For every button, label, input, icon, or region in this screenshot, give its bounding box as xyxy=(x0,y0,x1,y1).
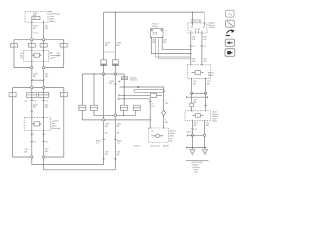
svg-text:Clutch: Clutch xyxy=(50,57,57,60)
junction ground bus R xyxy=(204,147,205,148)
tick on x150 xyxy=(149,100,152,102)
M1 tick low xyxy=(102,139,105,141)
M2 label xyxy=(117,43,122,48)
svg-text:OG: OG xyxy=(192,39,196,41)
ground label bracket xyxy=(186,159,209,161)
connector C1d on L2 xyxy=(40,44,47,48)
junction relay bottom right xyxy=(162,37,163,38)
wire label row2 L2 xyxy=(45,74,49,79)
svg-text:PU: PU xyxy=(152,106,155,108)
junction relay bottom left xyxy=(151,37,152,38)
splice SR4 xyxy=(203,134,205,136)
starter motor symbol xyxy=(151,130,163,137)
splice S5 xyxy=(31,86,33,88)
connector C2a xyxy=(9,93,16,97)
fuse F1 xyxy=(32,17,40,20)
junction E xyxy=(123,98,124,99)
R2 inner symbol xyxy=(192,71,204,75)
wires to R3 xyxy=(191,93,193,111)
fuse block label xyxy=(49,12,61,23)
chevron L2 low xyxy=(43,133,45,134)
M1 low label2 xyxy=(105,152,109,157)
splice S6 xyxy=(42,86,44,88)
relay K1 xyxy=(151,29,164,38)
tick right 2 xyxy=(201,46,208,48)
junction C xyxy=(123,95,124,96)
tick right 1 xyxy=(189,46,196,48)
svg-text:RD: RD xyxy=(163,42,167,44)
tick right wire xyxy=(204,105,207,107)
svg-text:(Maxi): (Maxi) xyxy=(50,21,56,23)
label right of wire R xyxy=(213,111,220,123)
svg-text:B203 f: B203 f xyxy=(163,145,169,147)
svg-text:Harness: Harness xyxy=(130,79,138,82)
tie row right xyxy=(187,96,208,98)
wire label mid xyxy=(109,81,114,85)
wire M2 lower xyxy=(114,74,116,170)
connector C3d xyxy=(133,105,140,110)
wire M1 vertical xyxy=(103,12,105,74)
splice S9 xyxy=(102,73,104,75)
dashed box starter xyxy=(149,128,169,143)
wire M2 vertical xyxy=(114,12,116,74)
R2 label right xyxy=(208,72,215,78)
wire L1 (left main vertical) xyxy=(31,23,33,158)
M2 tick low xyxy=(114,139,117,141)
branch x94 xyxy=(93,74,95,105)
note line xyxy=(33,32,39,34)
fuse pin stubs xyxy=(32,20,44,23)
connector C2d on L2 xyxy=(39,92,49,97)
svg-text:RD: RD xyxy=(117,45,121,47)
dashed box R1 xyxy=(188,23,207,33)
M1 label xyxy=(105,43,110,48)
splice S4 xyxy=(42,66,44,68)
right bus corner drop xyxy=(203,12,205,23)
pin dots box2 xyxy=(31,117,32,118)
svg-text:RD: RD xyxy=(45,28,49,30)
mid splice row horizontal xyxy=(82,73,124,75)
junction C3c on bus1 xyxy=(123,115,124,116)
starter feed line A xyxy=(120,87,164,111)
connector C1b xyxy=(60,44,67,48)
fuse block dashed box (Underhood Fuse Block) xyxy=(25,12,48,23)
label A wire2 xyxy=(165,120,168,125)
wire from C3c down xyxy=(123,110,125,115)
R1 extra pins xyxy=(196,31,199,33)
splice S7 xyxy=(31,156,33,158)
wire M1 lower xyxy=(103,74,105,165)
icon back xyxy=(225,39,234,46)
relay K1 label wires xyxy=(152,40,156,45)
svg-text:Motor: Motor xyxy=(208,74,214,77)
starter label xyxy=(170,130,177,143)
R1 pin numbers xyxy=(191,27,206,29)
connector D inline xyxy=(150,94,156,98)
svg-text:RD: RD xyxy=(45,107,49,109)
wire label 2240 RD (L1) xyxy=(33,26,38,31)
ground bus xyxy=(186,147,206,149)
junction A xyxy=(123,86,124,87)
C2 tick label L1 xyxy=(25,101,38,103)
svg-text:Assembly: Assembly xyxy=(52,127,62,130)
wire label row3 L2 xyxy=(45,104,49,108)
fusible link diamond xyxy=(162,110,166,115)
svg-text:OG: OG xyxy=(203,39,207,41)
splice S3 xyxy=(31,66,33,68)
icon pen1 xyxy=(226,10,235,17)
small symbol left wire xyxy=(190,103,194,106)
connector M1 xyxy=(101,60,107,64)
svg-text:Left: Left xyxy=(194,171,198,174)
pin dots box1 xyxy=(31,50,32,51)
svg-text:RD: RD xyxy=(33,28,37,30)
box2 label xyxy=(52,121,62,131)
wire L2 (right main vertical) xyxy=(43,23,45,158)
R2 pin dots xyxy=(190,64,191,65)
icon rec xyxy=(225,49,235,57)
dashed box R2 xyxy=(187,65,210,79)
junction line2 xyxy=(150,119,151,120)
arrow on A xyxy=(138,86,141,88)
svg-text:S101 w: S101 w xyxy=(134,145,141,147)
junction top M2 xyxy=(115,12,116,13)
svg-text:OG: OG xyxy=(203,61,207,63)
label A wire xyxy=(165,101,169,106)
svg-text:S158: S158 xyxy=(122,78,128,80)
splice S12 xyxy=(102,119,104,121)
wire branch left xyxy=(13,88,32,157)
splice box S158 xyxy=(121,77,127,80)
wire from C3b down to bus1 xyxy=(94,110,136,115)
below R3 labels xyxy=(194,123,198,128)
svg-text:RD: RD xyxy=(105,45,109,47)
starter bottom labels xyxy=(134,145,170,147)
junction ground bus L xyxy=(192,147,193,148)
svg-text:Center: Center xyxy=(209,26,216,29)
junction right bus xyxy=(192,12,193,13)
right labels 2 xyxy=(192,59,196,64)
C1 tick label L1 low xyxy=(30,141,37,143)
svg-text:RD: RD xyxy=(109,83,113,85)
splice S5 row xyxy=(13,87,64,89)
M1 lower label xyxy=(105,124,110,135)
tie splices xyxy=(187,134,203,136)
below R2 labels xyxy=(193,81,197,86)
R3 inner symbol xyxy=(192,114,203,118)
wire bottom run 2 xyxy=(44,158,116,170)
svg-text:OG: OG xyxy=(192,61,196,63)
box1 label xyxy=(50,52,62,60)
svg-text:RD: RD xyxy=(33,76,37,78)
tie at splices right xyxy=(192,92,206,94)
splice S10 xyxy=(114,73,116,75)
junction at relay joins xyxy=(190,49,191,50)
junction x94 xyxy=(93,73,94,74)
branch label left xyxy=(20,53,24,60)
S158 side label xyxy=(130,77,138,81)
wire branch right xyxy=(44,88,64,157)
svg-text:Relay: Relay xyxy=(152,26,158,28)
branch label right xyxy=(57,53,61,57)
svg-text:J: J xyxy=(165,31,166,33)
wire relay to right 2 xyxy=(151,38,191,54)
icon cursor xyxy=(226,29,235,35)
label x150 wire xyxy=(152,104,155,109)
wire label 342 RD (L2) xyxy=(45,26,49,31)
svg-text:RD: RD xyxy=(33,107,37,109)
C2 tick label L2 xyxy=(42,101,49,103)
C1 tick label L2 low xyxy=(42,141,49,143)
splice S8 xyxy=(42,156,44,158)
line C tail xyxy=(157,94,163,96)
ground G1 xyxy=(190,148,195,155)
chevron L1 low xyxy=(31,133,33,134)
wires below R2 xyxy=(191,78,193,93)
M2 low label2 xyxy=(117,152,121,157)
connector C3c xyxy=(120,105,127,110)
wire label row2 L1 xyxy=(33,74,38,79)
splice SR2 xyxy=(204,92,206,94)
icon pen2 xyxy=(226,20,235,27)
connector C1c on L1 xyxy=(28,44,35,48)
M2 flank label xyxy=(117,140,122,144)
line C xyxy=(119,94,150,96)
inline tick M2 xyxy=(112,64,119,66)
dashed box R1 label xyxy=(191,18,203,23)
splice SR3 xyxy=(191,134,193,136)
ground G2 xyxy=(202,148,207,155)
wire relay aux 1 xyxy=(156,38,191,58)
line E xyxy=(118,98,150,128)
connector C3a xyxy=(79,105,86,110)
dashed box R3 xyxy=(185,111,211,121)
branch x82 xyxy=(81,74,83,105)
wire label row3 L1 xyxy=(33,104,38,108)
tick row3 L1 xyxy=(31,110,33,112)
dashed box compressor clutch xyxy=(24,51,49,62)
wire label row4 L2 xyxy=(45,149,49,154)
wire right loop down xyxy=(44,40,64,68)
right bus drop 1 xyxy=(191,12,193,23)
chevron M2 upper xyxy=(114,83,116,84)
top bus horizontal xyxy=(104,11,205,13)
svg-text:RD: RD xyxy=(45,76,49,78)
R1 inner stubs xyxy=(191,23,205,33)
connector C2b xyxy=(60,93,67,97)
M2 lower label xyxy=(117,124,122,135)
wire R1 to R2 left xyxy=(190,33,192,65)
tick mid xyxy=(118,81,120,82)
tie line xyxy=(105,51,115,53)
connector M2 xyxy=(112,60,118,64)
splice S11 xyxy=(114,114,116,116)
wire from C3a down to bus2 xyxy=(82,110,150,120)
M1 chevron low xyxy=(103,158,105,159)
splice SR1 xyxy=(190,92,192,94)
relay K1 label xyxy=(152,23,159,28)
R3 pin dots xyxy=(191,110,192,111)
svg-text:G102 eng: G102 eng xyxy=(151,145,161,147)
clutch coil symbol xyxy=(32,53,42,57)
right wires labels xyxy=(192,37,196,42)
tick left wire low xyxy=(191,129,198,131)
R1 right label xyxy=(209,23,216,30)
svg-text:S210: S210 xyxy=(187,132,193,134)
fan motor symbol xyxy=(32,122,42,126)
splice S2 xyxy=(42,39,44,41)
wire label row4 L1 xyxy=(24,149,28,154)
wire R1 to R2 right xyxy=(201,33,203,65)
ground labels xyxy=(192,162,203,174)
splice S1 xyxy=(31,39,33,41)
wires below R3 xyxy=(191,120,193,147)
connector C3b xyxy=(90,105,97,110)
wire A lower xyxy=(163,115,165,128)
splice S1 row horizontal xyxy=(14,39,64,41)
labels under tie xyxy=(193,100,197,105)
wire relay to right 1 xyxy=(162,38,191,50)
wire left loop down xyxy=(14,40,32,68)
twisted pair capsule xyxy=(134,89,165,92)
wire bottom run 1 xyxy=(32,158,104,164)
inline tick M1 xyxy=(100,64,107,66)
R1 pin dots xyxy=(192,22,193,23)
connector C1a xyxy=(11,44,18,48)
starter pin dots xyxy=(150,127,151,128)
wire relay aux 2 xyxy=(159,38,191,59)
M1 flank label xyxy=(96,140,101,144)
connector C2c on L1 xyxy=(27,92,37,97)
svg-text:RD: RD xyxy=(165,103,169,105)
branch x124 xyxy=(123,74,125,105)
svg-text:A/C: A/C xyxy=(170,140,174,143)
M2 chevron low xyxy=(114,158,116,159)
dashed box condenser fan xyxy=(24,118,50,131)
tie line L1-L2 xyxy=(32,79,44,81)
